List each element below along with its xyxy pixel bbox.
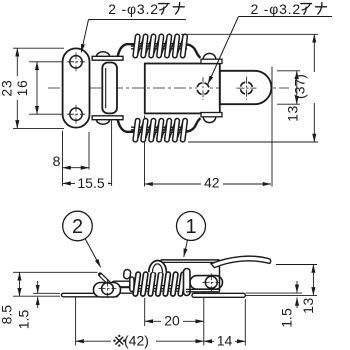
- svg-text:2 -φ3.2: 2 -φ3.2: [108, 1, 158, 17]
- svg-text:16: 16: [14, 80, 30, 97]
- svg-text:1.5: 1.5: [279, 308, 295, 328]
- svg-text:15.5: 15.5: [77, 175, 104, 191]
- svg-text:14: 14: [217, 332, 233, 348]
- svg-text:13: 13: [300, 297, 316, 314]
- svg-text:42: 42: [204, 175, 220, 191]
- svg-text:1: 1: [185, 216, 196, 238]
- svg-text:8: 8: [53, 153, 61, 169]
- svg-text:8.5: 8.5: [0, 305, 15, 325]
- svg-text:(42): (42): [124, 332, 149, 348]
- svg-text:23: 23: [0, 79, 15, 96]
- svg-text:20: 20: [164, 312, 180, 328]
- svg-text:1.5: 1.5: [16, 310, 32, 330]
- svg-text:13: 13: [284, 105, 300, 122]
- svg-text:2 -φ3.2: 2 -φ3.2: [251, 1, 301, 17]
- svg-text:2: 2: [72, 216, 83, 238]
- svg-text:(37): (37): [292, 74, 308, 99]
